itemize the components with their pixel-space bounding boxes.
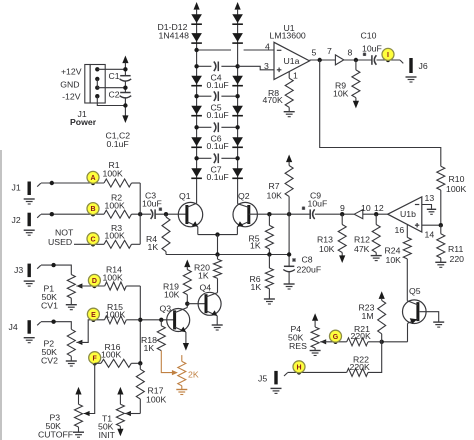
wire row A xyxy=(41,182,104,184)
-12V arrow T1 xyxy=(117,426,123,436)
svg-text:10K: 10K xyxy=(267,190,283,200)
wire row C xyxy=(74,243,104,245)
svg-text:220K: 220K xyxy=(351,331,371,341)
label P4 xyxy=(288,324,307,351)
trimmer 2K xyxy=(178,355,186,389)
polarity mark C10 xyxy=(363,53,366,56)
label R7 xyxy=(267,181,283,200)
svg-text:220K: 220K xyxy=(350,362,370,372)
pin 3 xyxy=(264,61,269,71)
wire xyxy=(315,213,354,215)
node R4 top xyxy=(164,212,168,216)
circled G xyxy=(330,330,342,342)
ground R12 xyxy=(371,256,382,261)
ground xyxy=(284,112,295,117)
node rail R5/R6 xyxy=(267,252,271,256)
jack J3 xyxy=(24,264,41,287)
svg-text:1N4148: 1N4148 xyxy=(159,31,190,41)
svg-text:13: 13 xyxy=(425,193,435,203)
diode D5 xyxy=(191,137,202,147)
svg-text:1K: 1K xyxy=(198,270,209,280)
op-amp U1a xyxy=(274,42,310,79)
svg-text:12: 12 xyxy=(374,203,384,213)
diode D11 xyxy=(232,137,243,147)
wire xyxy=(368,341,382,343)
transistor Q5 xyxy=(403,300,427,324)
svg-text:14: 14 xyxy=(425,230,435,240)
wire Q4 base xyxy=(187,303,206,305)
svg-text:C2: C2 xyxy=(109,90,120,100)
node D xyxy=(92,284,96,288)
node E xyxy=(91,318,95,322)
ground P3 xyxy=(73,432,84,437)
label R3 xyxy=(105,223,125,241)
diode D1 xyxy=(191,14,202,24)
svg-text:R13: R13 xyxy=(317,235,333,245)
label P3 xyxy=(38,413,73,440)
label R5 xyxy=(249,233,261,250)
svg-text:0.1uF: 0.1uF xyxy=(207,110,229,120)
svg-text:100K: 100K xyxy=(103,272,123,282)
label C6 xyxy=(207,134,229,151)
label R1 xyxy=(103,160,123,179)
pin 5 xyxy=(312,47,317,57)
resistor R6 xyxy=(265,268,273,289)
wire Q5 emitter row xyxy=(382,341,408,343)
label R20 xyxy=(194,263,210,281)
wire feedback xyxy=(320,60,441,166)
svg-text:10K: 10K xyxy=(164,289,180,299)
circled F xyxy=(89,352,101,364)
label Power xyxy=(70,117,97,127)
node res sum xyxy=(380,340,384,344)
resistor R16 xyxy=(101,359,131,367)
wire xyxy=(375,253,377,256)
Q1 emitter xyxy=(187,221,198,234)
wire xyxy=(124,81,126,93)
node rail R20 xyxy=(215,252,219,256)
wire R19/R20 rail stub xyxy=(217,255,219,260)
svg-text:J1: J1 xyxy=(12,183,21,193)
resistor R7 xyxy=(285,166,293,197)
wire xyxy=(97,87,125,89)
resistor R18 xyxy=(157,320,165,351)
label R23 xyxy=(359,303,375,322)
wire R4 lead xyxy=(165,214,167,217)
wire pin16 xyxy=(406,225,408,238)
capacitor C7 xyxy=(214,154,219,164)
resistor R12 xyxy=(372,225,380,253)
svg-text:100K: 100K xyxy=(105,231,125,241)
svg-text:Q1: Q1 xyxy=(179,191,191,201)
node -12V rail xyxy=(123,103,127,107)
wire xyxy=(221,157,237,159)
svg-text:10K: 10K xyxy=(319,244,335,254)
-12V arrow R13 xyxy=(339,255,345,263)
wire xyxy=(126,319,140,321)
transistor Q1 xyxy=(178,202,202,226)
resistor R8 xyxy=(285,78,293,107)
wire xyxy=(197,95,212,97)
svg-text:3: 3 xyxy=(264,61,269,71)
ground P1 xyxy=(66,305,77,310)
capacitor C5 xyxy=(214,91,219,101)
wire R12 lead xyxy=(375,214,377,224)
diode D10 xyxy=(232,106,243,116)
svg-text:220: 220 xyxy=(450,254,465,264)
svg-text:10: 10 xyxy=(361,203,371,213)
node xyxy=(51,320,55,324)
wire row D xyxy=(41,265,71,274)
label C3 xyxy=(142,190,162,208)
wire xyxy=(197,126,212,128)
capacitor C8 xyxy=(283,266,295,271)
wire Q2 base row xyxy=(249,213,311,215)
wire xyxy=(440,225,442,262)
wire pin4 xyxy=(197,49,274,51)
svg-text:Power: Power xyxy=(70,117,97,127)
svg-text:10uF: 10uF xyxy=(362,43,382,53)
capacitor C9 xyxy=(310,209,315,219)
wire xyxy=(288,271,290,283)
label C8 xyxy=(297,255,322,275)
svg-text:1: 1 xyxy=(293,70,298,80)
svg-text:CUTOFF: CUTOFF xyxy=(38,429,73,439)
svg-text:C: C xyxy=(90,236,95,243)
wire xyxy=(132,243,141,245)
node GND rail xyxy=(123,86,127,90)
svg-text:+12V: +12V xyxy=(61,67,82,77)
pin 12 xyxy=(374,203,384,213)
label -12V xyxy=(62,92,81,102)
svg-text:220uF: 220uF xyxy=(297,265,322,275)
node C7 right xyxy=(235,156,239,160)
svg-text:10uF: 10uF xyxy=(308,199,328,209)
Q3 emitter xyxy=(175,327,186,344)
node F xyxy=(93,361,97,365)
jack J6 xyxy=(400,58,417,82)
svg-text:Q2: Q2 xyxy=(238,191,250,201)
svg-text:1K: 1K xyxy=(148,242,159,252)
capacitor C3 xyxy=(151,209,156,219)
svg-text:100K: 100K xyxy=(105,201,125,211)
node rail C8 xyxy=(287,252,291,256)
+12V arrow R7 xyxy=(286,155,292,166)
label J1 xyxy=(78,109,87,119)
label J2 jack xyxy=(12,215,21,225)
svg-text:Q3: Q3 xyxy=(160,304,172,314)
node Q3 collector xyxy=(185,302,189,306)
wiper 2K xyxy=(172,370,178,375)
node xyxy=(50,181,54,185)
resistor R1 xyxy=(104,179,131,187)
node C xyxy=(91,242,95,246)
label C4 xyxy=(207,73,229,90)
svg-text:RES: RES xyxy=(289,341,307,351)
label 2K xyxy=(188,369,199,379)
op-amp U1b xyxy=(388,197,422,232)
svg-text:100K: 100K xyxy=(103,169,123,179)
node pin4 xyxy=(194,48,198,52)
wire pin13 xyxy=(422,205,432,209)
ground pin13 xyxy=(427,209,436,214)
label R8 xyxy=(263,88,283,105)
svg-text:Q4: Q4 xyxy=(200,282,212,292)
wire xyxy=(126,285,140,287)
wire xyxy=(288,107,290,111)
border artifact xyxy=(0,150,2,440)
ground Q4 xyxy=(212,325,223,330)
resistor R5 xyxy=(265,225,273,249)
node C5 left xyxy=(194,94,198,98)
label U1a xyxy=(284,56,300,66)
+12V arrow right chain xyxy=(235,2,241,14)
svg-text:J5: J5 xyxy=(258,373,267,383)
resistor R23 xyxy=(378,300,386,341)
node G xyxy=(333,340,337,344)
node C3 in xyxy=(138,212,142,216)
resistor R11 xyxy=(437,234,445,258)
svg-text:0.1uF: 0.1uF xyxy=(207,141,229,151)
node I xyxy=(386,58,390,62)
wire xyxy=(268,249,270,255)
resistor R15 xyxy=(105,316,127,324)
connector J1 xyxy=(85,65,105,104)
node C5 right xyxy=(235,94,239,98)
resistor R20 xyxy=(214,259,222,278)
wire xyxy=(124,97,126,115)
circled I xyxy=(382,48,394,60)
label R12 xyxy=(354,235,370,255)
+12V power arrow xyxy=(122,56,128,76)
label C9 xyxy=(308,190,328,208)
svg-text:C10: C10 xyxy=(361,31,377,41)
node sum R15 xyxy=(138,318,142,322)
wiper P4 xyxy=(320,339,347,344)
circled C xyxy=(87,233,99,245)
Q3 collector xyxy=(175,308,188,313)
wire R13 lead xyxy=(341,214,343,224)
capacitor C2 xyxy=(120,93,132,98)
jack J4 xyxy=(24,320,41,343)
label D1-D12 xyxy=(158,22,190,41)
wire R7 to C8 xyxy=(288,196,290,266)
resistor R2 xyxy=(104,210,131,218)
ground P4 xyxy=(310,351,321,356)
svg-text:0.1uF: 0.1uF xyxy=(207,80,229,90)
+12V arrow R19 xyxy=(184,260,190,270)
wire xyxy=(131,362,140,364)
svg-text:-12V: -12V xyxy=(62,92,81,102)
capacitor C6 xyxy=(214,123,219,133)
wiper P3 xyxy=(84,411,90,416)
wire xyxy=(197,65,212,67)
svg-text:0.1uF: 0.1uF xyxy=(207,172,229,182)
svg-text:USED: USED xyxy=(48,237,72,247)
svg-text:F: F xyxy=(93,355,98,362)
node B xyxy=(91,212,95,216)
label R9 xyxy=(333,81,349,99)
node pin5 xyxy=(318,58,322,62)
diode D4 xyxy=(191,106,202,116)
wire pin14 xyxy=(422,224,441,226)
wire xyxy=(97,68,125,70)
wire pin5 output xyxy=(310,59,336,61)
node C4 right xyxy=(235,64,239,68)
label GND xyxy=(60,80,79,90)
svg-text:2K: 2K xyxy=(188,369,199,379)
diode D2 xyxy=(191,33,202,43)
svg-text:CV1: CV1 xyxy=(41,301,58,311)
diode D12 xyxy=(232,168,243,178)
svg-text:1K: 1K xyxy=(251,282,262,292)
resistor R3 xyxy=(104,240,131,248)
label P2 xyxy=(41,339,58,366)
label P1 xyxy=(41,284,58,311)
wire xyxy=(217,278,219,292)
ground R6 xyxy=(264,299,275,304)
diode D3 xyxy=(191,76,202,86)
jack J5 xyxy=(271,371,288,394)
svg-text:J3: J3 xyxy=(14,265,23,275)
svg-text:100K: 100K xyxy=(446,184,466,194)
circled D xyxy=(88,274,100,286)
Q5 emitter xyxy=(408,318,418,342)
wire 2K pot orange xyxy=(161,351,175,373)
svg-text:7: 7 xyxy=(327,46,332,56)
label J3 xyxy=(14,265,23,275)
label Q2 xyxy=(238,191,250,201)
resistor R10 xyxy=(437,166,445,190)
wire xyxy=(377,59,401,61)
pin 4 xyxy=(265,41,270,51)
diode D8 xyxy=(232,33,243,43)
node emitters xyxy=(215,232,219,236)
pin 1 xyxy=(293,70,298,80)
svg-text:4: 4 xyxy=(265,41,270,51)
circled A xyxy=(87,171,99,183)
label C1,C2 value xyxy=(106,131,131,149)
node C6 left xyxy=(194,125,198,129)
label C7 xyxy=(207,165,229,182)
transistor Q2 xyxy=(233,202,257,226)
wire xyxy=(97,96,125,105)
wire summing vertical xyxy=(139,183,141,244)
+12V arrow P4 xyxy=(312,313,318,327)
node R13 top xyxy=(340,212,344,216)
potentiometer P3 xyxy=(75,404,83,432)
svg-text:R11: R11 xyxy=(448,244,463,254)
node pin14 xyxy=(439,223,443,227)
svg-text:1M: 1M xyxy=(362,311,374,321)
svg-text:10K: 10K xyxy=(386,255,402,265)
label R4 xyxy=(146,234,158,252)
label R6 xyxy=(250,274,262,292)
svg-text:8: 8 xyxy=(348,47,353,57)
circled B xyxy=(87,203,99,215)
wire left chain xyxy=(196,14,198,203)
wire pin3 xyxy=(238,66,274,70)
svg-text:470K: 470K xyxy=(263,95,283,105)
transistor Q3 xyxy=(167,309,190,332)
diode D7 xyxy=(232,14,243,24)
node xyxy=(50,212,54,216)
label R15 xyxy=(105,302,125,320)
polarity mark C3 xyxy=(159,208,162,211)
svg-text:J4: J4 xyxy=(9,322,18,332)
Q2 collector xyxy=(238,204,249,208)
svg-text:I: I xyxy=(387,52,389,59)
label R19 xyxy=(163,281,180,299)
label J5 xyxy=(258,373,267,383)
wire xyxy=(355,98,357,101)
resistor R24 xyxy=(403,237,411,258)
resistor R14 xyxy=(105,282,127,290)
pin 8 xyxy=(348,47,353,57)
wire xyxy=(96,79,98,88)
svg-text:R12: R12 xyxy=(354,235,370,245)
potentiometer P4 xyxy=(311,327,319,350)
wire right chain xyxy=(237,14,239,203)
svg-text:100K: 100K xyxy=(105,310,125,320)
node C4 left xyxy=(194,64,198,68)
wire xyxy=(186,295,188,308)
-12V arrow R9 xyxy=(353,101,359,109)
label Q1 xyxy=(179,191,191,201)
svg-text:C1: C1 xyxy=(109,71,120,81)
node R12 top xyxy=(374,212,378,216)
circled E xyxy=(87,308,99,320)
wire rail xyxy=(166,254,289,256)
wiper P2 xyxy=(76,320,104,345)
ground R11 xyxy=(435,262,446,267)
+12V arrow left chain xyxy=(194,2,200,14)
+12V arrow P3 xyxy=(75,387,81,404)
Q1 collector xyxy=(187,203,197,207)
wire xyxy=(363,213,388,215)
+12V arrow T1 xyxy=(117,387,123,404)
node R5 top xyxy=(267,212,271,216)
wire R5 lead xyxy=(268,214,270,225)
svg-text:C8: C8 xyxy=(302,255,313,265)
svg-text:LM13600: LM13600 xyxy=(270,31,306,41)
ground C8 xyxy=(284,284,295,289)
svg-text:D: D xyxy=(92,278,97,285)
label J6 xyxy=(419,61,428,71)
wire pin1 xyxy=(288,72,290,79)
diode D9 xyxy=(232,76,243,86)
svg-text:9: 9 xyxy=(340,203,345,213)
wire xyxy=(368,342,382,373)
resistor R4 xyxy=(162,217,170,252)
diode D6 xyxy=(191,168,202,178)
Q5 collector xyxy=(407,301,418,305)
wire xyxy=(221,95,237,97)
node sum R16 xyxy=(138,361,142,365)
label U1 xyxy=(270,23,306,41)
label R22 xyxy=(350,355,370,372)
ground 2K xyxy=(176,390,187,395)
node xyxy=(51,263,55,267)
Q4 collector xyxy=(206,293,218,297)
label R24 xyxy=(385,246,402,266)
-12V arrow Q3 xyxy=(183,343,189,351)
capacitor C10 xyxy=(372,55,377,65)
label Q3 xyxy=(160,304,172,314)
jack J2 input xyxy=(24,213,41,236)
wire xyxy=(197,157,212,159)
svg-text:5: 5 xyxy=(312,47,317,57)
